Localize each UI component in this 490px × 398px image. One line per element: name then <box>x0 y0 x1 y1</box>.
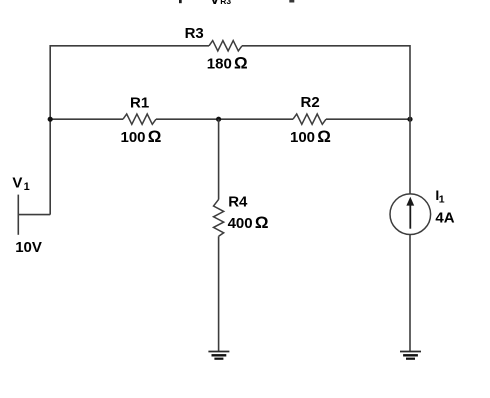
svg-text:V: V <box>210 0 220 8</box>
wire: middle net from R2 right terminal to right node <box>326 118 410 120</box>
node junction dot: middle node (R1 / R2 / R4) <box>216 117 221 122</box>
wire: middle net from R1 right terminal to R2 left terminal <box>156 118 293 120</box>
svg-text:4A: 4A <box>435 210 454 227</box>
node junction dot: right node (R2 / R3 / I1) <box>407 117 412 122</box>
svg-text:100Ω: 100Ω <box>121 127 162 146</box>
wire: top net from R3 right terminal to top-right corner <box>242 45 410 47</box>
svg-text:1: 1 <box>439 194 445 206</box>
wire: from middle node down to R4 top terminal <box>218 119 220 199</box>
resistor R1 zigzag <box>123 114 156 124</box>
svg-text:V: V <box>12 175 22 192</box>
svg-text:R2: R2 <box>301 94 320 111</box>
current source I1 arrow shaft <box>409 205 411 229</box>
svg-text:10V: 10V <box>15 239 42 256</box>
wire: top net from top-left corner to R3 left terminal <box>50 45 209 47</box>
node junction dot: left node (V1 / R1 / left wire) <box>48 117 53 122</box>
svg-text:400Ω: 400Ω <box>228 213 269 232</box>
ground symbol: below I1 <box>400 352 421 359</box>
svg-text:1: 1 <box>24 181 30 193</box>
wire: from R4 bottom terminal down to left ground <box>218 236 220 351</box>
svg-text:R4: R4 <box>228 193 248 210</box>
resistor R2 zigzag <box>293 114 326 124</box>
wire: left vertical from top-left corner down to V1 stub <box>49 45 51 215</box>
wire: from right node down to I1 top terminal <box>409 119 411 194</box>
label V1 designator <box>12 175 29 194</box>
resistor R4 zigzag <box>214 199 224 236</box>
current source I1 circle <box>390 194 431 235</box>
svg-text:R3: R3 <box>220 0 231 6</box>
label: clipped minus sign of V_R3 annotation <box>289 0 294 3</box>
svg-text:100Ω: 100Ω <box>290 127 331 146</box>
svg-text:R1: R1 <box>130 94 149 111</box>
wire: middle net from left node to R1 left terminal <box>50 118 123 120</box>
wire: from I1 bottom terminal down to right ground <box>409 235 411 352</box>
wire: right vertical from top-right corner down to right node <box>409 45 411 119</box>
ground symbol: below R4 <box>208 352 229 359</box>
wire: V1 horizontal stub <box>18 214 50 216</box>
voltage source V1 terminal bar <box>17 195 19 235</box>
label I1 designator <box>435 187 444 206</box>
svg-text:180Ω: 180Ω <box>207 53 248 72</box>
label: clipped plus sign of V_R3 annotation <box>179 0 182 3</box>
label: clipped V_R3 text <box>210 0 232 8</box>
svg-text:R3: R3 <box>185 25 204 42</box>
resistor R3 zigzag <box>209 41 242 51</box>
current source I1 arrow head <box>406 197 414 206</box>
